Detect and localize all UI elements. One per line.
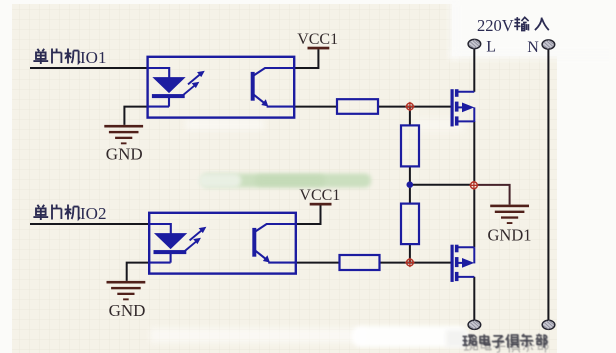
svg-text:N: N xyxy=(527,39,539,56)
svg-text:VCC1: VCC1 xyxy=(299,187,340,204)
svg-text:IO1: IO1 xyxy=(80,48,106,67)
svg-text:L: L xyxy=(486,38,496,55)
svg-text:IO2: IO2 xyxy=(80,204,106,223)
svg-text:GND1: GND1 xyxy=(488,226,532,245)
svg-text:GND: GND xyxy=(106,145,143,164)
svg-text:GND: GND xyxy=(109,301,146,320)
svg-text:220V: 220V xyxy=(477,16,514,35)
svg-text:VCC1: VCC1 xyxy=(297,31,338,48)
